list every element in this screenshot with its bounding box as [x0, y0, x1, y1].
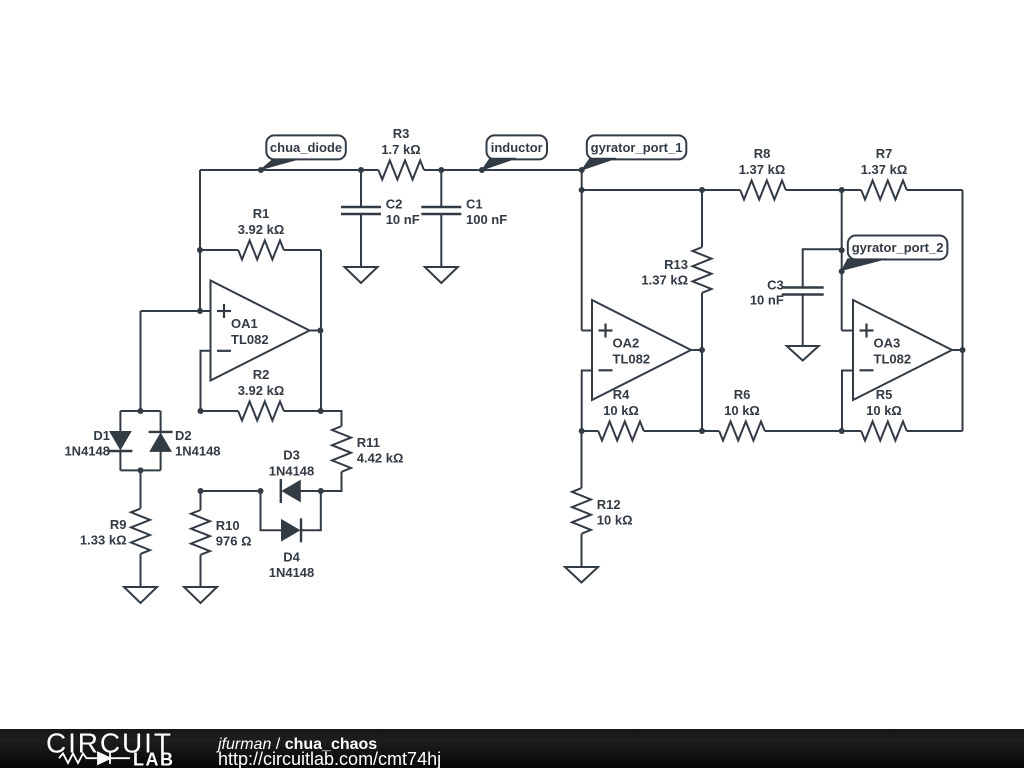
svg-text:R7: R7	[876, 146, 893, 161]
svg-text:R2: R2	[253, 367, 270, 382]
svg-text:OA3: OA3	[874, 336, 901, 351]
svg-text:R6: R6	[734, 387, 751, 402]
svg-text:976 Ω: 976 Ω	[216, 534, 252, 549]
svg-text:1.7 kΩ: 1.7 kΩ	[381, 142, 420, 157]
svg-text:R9: R9	[110, 517, 127, 532]
svg-text:10 kΩ: 10 kΩ	[597, 513, 633, 528]
svg-text:http://circuitlab.com/cmt74hj: http://circuitlab.com/cmt74hj	[218, 749, 441, 768]
svg-text:C2: C2	[386, 197, 403, 212]
svg-text:1N4148: 1N4148	[175, 444, 221, 459]
svg-text:D1: D1	[93, 428, 110, 443]
svg-text:R12: R12	[597, 497, 621, 512]
svg-text:TL082: TL082	[613, 352, 651, 367]
svg-text:D4: D4	[283, 549, 300, 564]
svg-text:TL082: TL082	[231, 332, 269, 347]
svg-text:R13: R13	[664, 257, 688, 272]
svg-text:1.37 kΩ: 1.37 kΩ	[641, 273, 688, 288]
svg-text:100 nF: 100 nF	[466, 212, 507, 227]
svg-text:inductor: inductor	[491, 140, 543, 155]
svg-text:1.37 kΩ: 1.37 kΩ	[861, 162, 908, 177]
svg-text:1.37 kΩ: 1.37 kΩ	[739, 162, 786, 177]
svg-text:1N4148: 1N4148	[64, 444, 110, 459]
svg-text:R3: R3	[393, 126, 410, 141]
svg-text:C1: C1	[466, 197, 483, 212]
svg-text:1N4148: 1N4148	[269, 464, 315, 479]
svg-text:OA2: OA2	[613, 336, 640, 351]
svg-text:R1: R1	[253, 206, 270, 221]
svg-text:3.92 kΩ: 3.92 kΩ	[238, 222, 285, 237]
svg-text:R8: R8	[754, 146, 771, 161]
svg-text:D2: D2	[175, 428, 192, 443]
svg-text:gyrator_port_2: gyrator_port_2	[852, 240, 944, 255]
svg-text:chua_diode: chua_diode	[270, 140, 342, 155]
svg-text:R5: R5	[876, 387, 893, 402]
svg-text:4.42 kΩ: 4.42 kΩ	[357, 451, 404, 466]
svg-text:10 kΩ: 10 kΩ	[866, 403, 902, 418]
svg-text:10 nF: 10 nF	[750, 293, 784, 308]
svg-text:TL082: TL082	[874, 352, 912, 367]
svg-text:C3: C3	[767, 277, 784, 292]
svg-text:10 nF: 10 nF	[386, 212, 420, 227]
svg-text:gyrator_port_1: gyrator_port_1	[591, 140, 683, 155]
svg-text:1N4148: 1N4148	[269, 565, 315, 580]
svg-text:10 kΩ: 10 kΩ	[603, 403, 639, 418]
svg-text:OA1: OA1	[231, 316, 258, 331]
svg-text:1.33 kΩ: 1.33 kΩ	[80, 533, 127, 548]
svg-text:3.92 kΩ: 3.92 kΩ	[238, 383, 285, 398]
svg-text:D3: D3	[283, 448, 300, 463]
svg-text:10 kΩ: 10 kΩ	[724, 403, 760, 418]
svg-text:R4: R4	[613, 387, 630, 402]
svg-text:R10: R10	[216, 518, 240, 533]
svg-text:LAB: LAB	[133, 749, 175, 768]
svg-text:R11: R11	[357, 435, 380, 450]
